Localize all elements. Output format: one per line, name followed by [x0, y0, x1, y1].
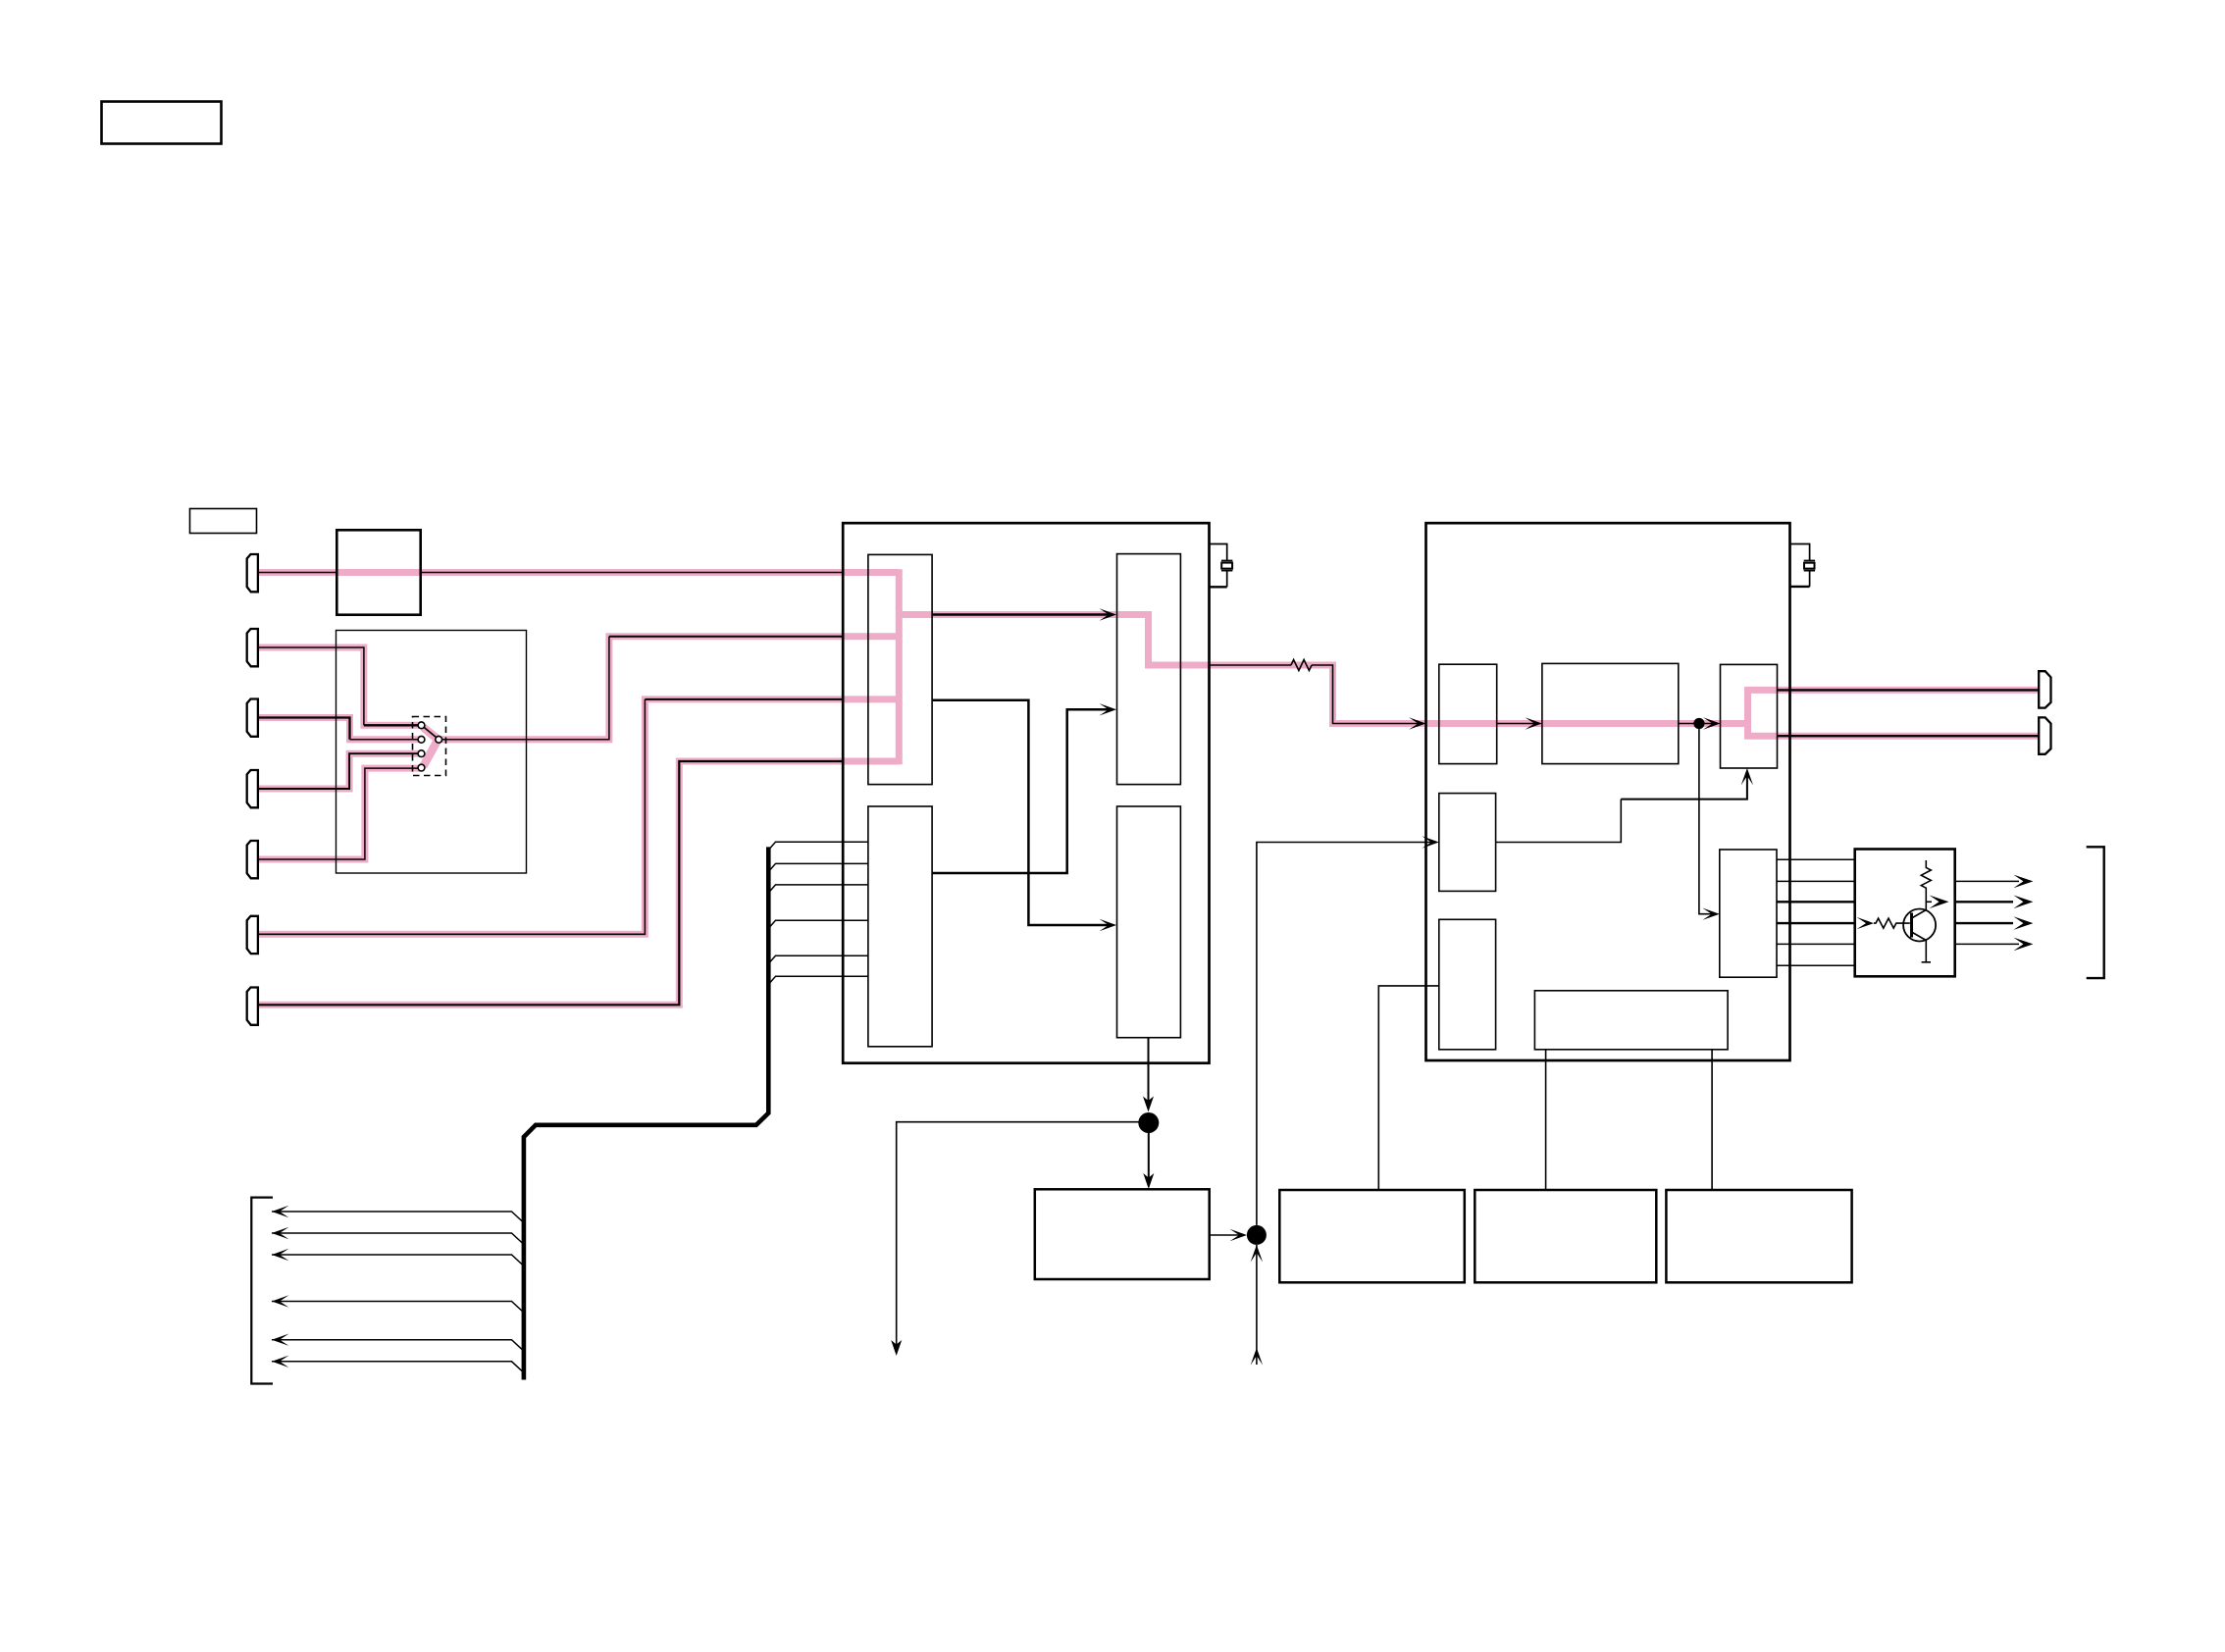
IC1 DAC block — [1117, 554, 1181, 785]
connector CN7 — [247, 988, 258, 1025]
box: input switch container — [336, 631, 527, 874]
wire: LED out 1 — [1955, 880, 2019, 882]
arrow: key line 6 — [272, 1356, 289, 1368]
highlight: CN6 wire to IC1 — [258, 699, 899, 934]
switch contact 4 — [418, 764, 425, 771]
connector CN5 — [247, 841, 258, 878]
wire: volume to output amp — [1679, 723, 1716, 725]
arrow: key line 5 — [272, 1334, 289, 1346]
switch common contact — [436, 736, 442, 743]
IC2 (system micon) outline — [1426, 523, 1790, 1060]
wire: line out L — [1778, 689, 2040, 691]
bus branch 3 into IC1 — [768, 885, 868, 893]
crystal X1 wiring — [1210, 544, 1227, 588]
wire: EQ box to IC1 — [422, 572, 843, 574]
transistor Q1 — [1903, 909, 1936, 942]
bus branch 1 into IC1 — [768, 842, 868, 850]
arrow: remote out down — [891, 1340, 902, 1356]
wire: reset block input — [1378, 986, 1439, 1190]
junction J2 — [1247, 1225, 1267, 1245]
wire: switch output to IC1 — [442, 637, 609, 740]
wire: LED driver line 4 — [1777, 922, 1855, 924]
highlight: CN3 wire to switch contact 2 — [258, 718, 421, 740]
wire: CN2 to switch contact 1 — [258, 647, 364, 725]
junction J3 — [1693, 718, 1704, 729]
bus branch out 3 — [272, 1255, 524, 1266]
arrow: into IC2 standby block — [1422, 836, 1439, 848]
wire: CN3 to switch contact 2 — [258, 718, 350, 740]
wire: J3 down to LED driver — [1699, 729, 1715, 914]
highlight: IC1 DAC path to IC2 through resistor — [896, 615, 1748, 724]
arrow: LED line 4 — [2013, 938, 2033, 952]
bus branch out 1 to key bracket — [272, 1212, 524, 1223]
bus branch 5 into IC1 — [768, 955, 868, 963]
arrow: into control — [1100, 919, 1117, 931]
bus branch 6 into IC1 — [768, 976, 868, 984]
resistor R1 — [1291, 660, 1312, 671]
box C (key) — [1475, 1190, 1656, 1282]
IC2 memory block — [1534, 991, 1728, 1050]
wire: LED driver line 2 — [1777, 880, 1855, 882]
highlight: line out R — [1744, 733, 2039, 740]
crystal X2 body — [1804, 563, 1815, 569]
arrow: into J1 — [1143, 1097, 1154, 1112]
arrow: LED line 3 — [2013, 916, 2033, 930]
wire: J1 west then down — [897, 1122, 1139, 1352]
arrow: into LED driver — [1702, 908, 1720, 920]
highlight: IC2 output split — [1744, 687, 1751, 739]
wire: memory to box C — [1545, 1050, 1547, 1190]
connector CN1 — [247, 554, 258, 592]
IC1 (DSP) outline — [843, 523, 1209, 1062]
highlight: IC1 input select trunk — [896, 569, 903, 764]
bus branch out 6 — [272, 1362, 524, 1373]
transistor block Q1 outline — [1855, 850, 1955, 977]
arrow: key line 1 — [272, 1206, 289, 1217]
IC2 standby block — [1439, 794, 1496, 892]
wire: J2 up to IC2 — [1257, 843, 1434, 1225]
bus branch out 5 — [272, 1340, 524, 1352]
connector CN4 — [247, 770, 258, 807]
crystal X1 plates — [1221, 561, 1232, 571]
wire: selector to DAC — [932, 613, 1110, 616]
wire: key block to DAC — [932, 709, 1110, 873]
connector CN3 — [247, 699, 258, 737]
resistor R3 (pull-up) — [1921, 860, 1931, 910]
arrow: up from supply — [1251, 1348, 1263, 1366]
wire: CN5 to switch contact 4 — [258, 768, 418, 859]
wire: memory to box D — [1711, 1050, 1713, 1190]
IC2 volume block — [1542, 663, 1679, 763]
arrow: LED line 2 — [2013, 896, 2033, 909]
arrow: up into output amp — [1741, 768, 1753, 786]
wire: LED driver line 5 — [1777, 943, 1855, 945]
wire: resistor R1 to IC2 — [1312, 665, 1422, 724]
wire: buffer to volume — [1497, 723, 1538, 725]
wire: LED out 4 — [1955, 943, 2019, 945]
arrow: key line 2 — [272, 1227, 289, 1239]
box A (power supply) — [1035, 1189, 1210, 1279]
bus branch 2 into IC1 — [768, 863, 868, 871]
arrow: into box A — [1143, 1173, 1154, 1189]
arrow: into DAC — [1100, 608, 1117, 620]
harness trunk (thick bus) — [524, 847, 768, 1379]
arrow: into volume — [1525, 717, 1542, 729]
IC2 LED driver block — [1720, 850, 1777, 977]
arrow: collector out (inside block) — [1930, 896, 1949, 909]
arrow: up into J2 — [1251, 1245, 1263, 1263]
arrow: into J2 — [1230, 1229, 1248, 1241]
box: small label box — [190, 509, 257, 534]
wire: CN6 to IC1 — [258, 699, 645, 934]
wire: IC1 to resistor R1 — [1210, 664, 1292, 666]
box D (remote) — [1666, 1190, 1851, 1282]
switch S1 dashed body — [413, 717, 446, 776]
bracket: key input group — [251, 1198, 273, 1384]
wire: CN1 to EQ box — [258, 572, 336, 574]
IC1 system control block — [1117, 806, 1181, 1038]
wire: LED out 2 — [1955, 901, 2013, 903]
IC1 input selector block — [868, 554, 932, 784]
wire: line out R — [1778, 735, 2040, 737]
highlight: CN7 wire to IC1 — [258, 761, 899, 1005]
switch contact 2 — [418, 736, 425, 743]
wire: LED driver line 1 — [1777, 858, 1855, 860]
IC1 key scan block — [868, 806, 932, 1047]
wire: LED out 3 — [1955, 922, 2013, 924]
arrow: base input — [1857, 917, 1875, 929]
connector CN6 — [247, 916, 258, 954]
highlight: line out L — [1744, 687, 2039, 694]
highlight: CN5 wire to switch contact 4 — [258, 768, 421, 859]
crystal X2 wiring — [1790, 544, 1810, 587]
connector CN8 (out L) — [2039, 671, 2050, 707]
IC2 input buffer block — [1439, 664, 1497, 763]
arrow: LED line 1 — [2013, 875, 2033, 889]
wire: IC1 control to junction J1 — [1148, 1038, 1150, 1108]
highlight: CN4 wire to switch contact 3 — [258, 753, 421, 789]
wire: power input from below — [1256, 1245, 1258, 1365]
wire: collector out — [1926, 901, 1932, 903]
wire: LED driver line 3 — [1777, 901, 1855, 903]
wire: selector to control — [932, 700, 1110, 925]
wire: CN4 to switch contact 3 — [258, 753, 418, 789]
connector CN9 (out R) — [2039, 717, 2050, 753]
arrow: key line 4 — [272, 1295, 289, 1307]
junction J1 — [1138, 1112, 1159, 1133]
wire: box A to junction J2 — [1210, 1234, 1243, 1236]
bus branch 4 into IC1 — [768, 920, 868, 928]
IC2 reset block — [1439, 919, 1496, 1050]
wire: LED driver line 6 — [1777, 964, 1855, 966]
highlight: switch output to IC1 — [439, 637, 899, 740]
arrow: into DAC lower — [1100, 703, 1117, 715]
resistor R2 (base) — [1874, 918, 1910, 928]
connector CN2 — [247, 629, 258, 666]
box: top-left revision box — [102, 102, 222, 144]
crystal X1 body — [1221, 563, 1232, 569]
highlight: switch chevron — [424, 728, 439, 767]
arrow: into IC2 — [1409, 717, 1426, 729]
bus branch out 4 — [272, 1302, 524, 1314]
IC2 output amp block — [1721, 664, 1778, 768]
bus branch out 2 — [272, 1233, 524, 1245]
switch S1 lever — [424, 728, 436, 738]
switch contact 1 — [418, 722, 425, 729]
highlight: TAPE L line from CN1 through EQ box to IC1 trunk — [258, 569, 899, 576]
arrow: into output amp — [1703, 717, 1721, 729]
arrow: key line 3 — [272, 1249, 289, 1261]
box B (display) — [1279, 1190, 1465, 1282]
highlight: CN2 wire to switch contact 1 — [258, 647, 421, 725]
box: EQ amp block — [336, 530, 420, 614]
bracket: LED group — [2087, 847, 2104, 978]
emitter to ground — [1922, 941, 1931, 962]
wire: CN7 to IC1 — [258, 761, 843, 1005]
crystal X2 plates — [1804, 561, 1815, 571]
wire: standby block to output amp — [1496, 800, 1622, 843]
wire: J1 down to box A — [1148, 1133, 1150, 1185]
switch contact 3 — [418, 750, 425, 757]
